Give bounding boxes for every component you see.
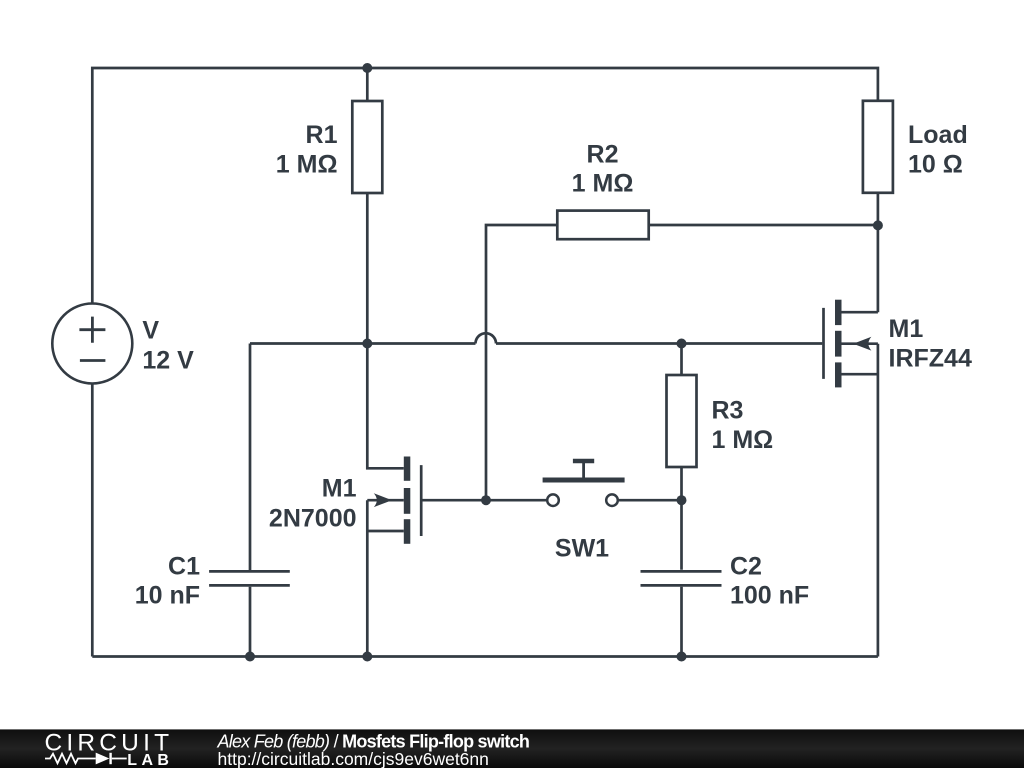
resistor R1	[352, 101, 382, 193]
label C2 100 nF	[730, 553, 809, 610]
svg-text:1 MΩ: 1 MΩ	[712, 426, 774, 454]
svg-text:C1: C1	[168, 553, 200, 581]
svg-text:1 MΩ: 1 MΩ	[276, 150, 338, 178]
svg-text:12 V: 12 V	[142, 346, 194, 374]
node gate SW1	[481, 495, 491, 505]
svg-text:R3: R3	[712, 397, 744, 425]
svg-text:M1: M1	[889, 315, 924, 343]
footer bar	[0, 729, 1024, 768]
wire C1 branch	[249, 344, 252, 657]
wire hop over vertical	[476, 333, 497, 343]
svg-text:IRFZ44: IRFZ44	[889, 345, 972, 373]
transistor M1 IRFZ44	[824, 300, 878, 388]
svg-text:10 nF: 10 nF	[135, 581, 200, 609]
resistor R2	[557, 211, 648, 240]
svg-text:100 nF: 100 nF	[730, 581, 809, 609]
node SW1 R3 C2	[677, 495, 687, 505]
svg-text:1 MΩ: 1 MΩ	[572, 170, 634, 198]
voltage source V	[52, 304, 132, 384]
logo resistor-diode symbol	[45, 753, 127, 764]
label M1 2N7000	[269, 474, 357, 532]
wire gate rail right segment	[496, 342, 822, 345]
resistor R3	[667, 375, 697, 467]
svg-text:R1: R1	[306, 121, 338, 149]
svg-text:SW1: SW1	[555, 534, 609, 562]
svg-text:C2: C2	[730, 553, 762, 581]
label R2 1 MOhm	[572, 140, 634, 197]
wire gate rail left segment	[250, 342, 476, 345]
wire SW1 right to R3 node	[618, 499, 682, 502]
node bottom C2	[677, 652, 687, 662]
label C1 10 nF	[135, 553, 200, 610]
node top R1	[362, 63, 372, 73]
node dots	[245, 63, 883, 662]
wire R2 left and down to gate node	[486, 225, 557, 500]
wire right rail source to bottom	[877, 344, 880, 657]
capacitor C2	[641, 571, 722, 585]
node gate rail R1	[362, 339, 372, 349]
node bottom M1	[362, 652, 372, 662]
wire R2 right to rail	[649, 224, 878, 227]
wire R1 top	[366, 68, 369, 101]
label Load 10 Ohm	[908, 121, 968, 178]
resistor Load	[863, 101, 893, 193]
svg-text:V: V	[142, 317, 159, 345]
svg-text:LAB: LAB	[127, 752, 173, 768]
label M1 IRFZ44	[889, 315, 972, 373]
svg-text:Load: Load	[908, 121, 968, 149]
label R3 1 MOhm	[712, 397, 774, 455]
svg-text:M1: M1	[322, 474, 357, 502]
label R1 1 MOhm	[276, 121, 338, 179]
node rail R2	[873, 220, 883, 230]
wire left rail bottom	[91, 384, 94, 657]
wire right rail Load to drain	[877, 193, 880, 312]
node bottom C1	[245, 652, 255, 662]
svg-text:10 Ω: 10 Ω	[908, 151, 963, 179]
switch SW1	[543, 461, 625, 506]
wire top rail	[92, 68, 878, 304]
transistor M1 2N7000	[367, 344, 547, 657]
svg-text:2N7000: 2N7000	[269, 504, 357, 532]
capacitor C1	[209, 571, 290, 585]
label V 12 V	[142, 317, 194, 375]
wire bottom rail	[92, 655, 878, 658]
svg-text:http://circuitlab.com/cjs9ev6w: http://circuitlab.com/cjs9ev6wet6nn	[218, 749, 489, 768]
wire R1 bottom	[366, 193, 369, 344]
node gate rail R3	[677, 339, 687, 349]
wire R3 branch	[680, 344, 683, 657]
svg-text:R2: R2	[587, 140, 619, 168]
